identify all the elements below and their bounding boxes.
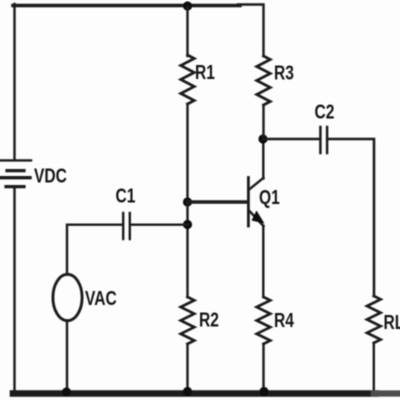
node VAC-ground junction xyxy=(62,387,71,396)
capacitor C2 xyxy=(315,101,335,153)
wire C2 to RL xyxy=(328,139,374,296)
resistor R2 xyxy=(181,297,219,344)
wire battery - to ground bus xyxy=(13,188,15,393)
node top junction xyxy=(183,1,192,10)
capacitor C1 xyxy=(116,185,136,239)
svg-text:C1: C1 xyxy=(116,185,136,207)
wire top supply rail xyxy=(13,4,240,8)
wire Q1 collector to collector node xyxy=(262,139,264,179)
source VAC xyxy=(53,274,117,320)
resistor R3 xyxy=(257,56,294,105)
wire Q1 emitter to R4 xyxy=(262,226,264,297)
node base junction xyxy=(183,197,192,206)
resistor RL xyxy=(367,296,400,343)
svg-text:VDC: VDC xyxy=(34,165,67,187)
wire top rail to R3 branch xyxy=(238,5,264,57)
wire left supply (top wire to battery +) xyxy=(13,4,15,160)
svg-text:VAC: VAC xyxy=(85,287,117,309)
wire R4 to ground bus xyxy=(262,344,264,393)
wire RL to ground bus xyxy=(373,343,375,393)
wire C1 to junction xyxy=(131,223,188,225)
node R4-ground junction xyxy=(259,387,268,396)
battery VDC xyxy=(0,160,67,187)
svg-text:Q1: Q1 xyxy=(259,186,280,208)
transistor Q1 xyxy=(248,178,279,227)
svg-text:R2: R2 xyxy=(199,309,219,331)
svg-text:RL: RL xyxy=(384,311,400,333)
node R2-ground junction xyxy=(183,387,192,396)
resistor R1 xyxy=(181,55,215,104)
svg-text:R4: R4 xyxy=(274,309,294,331)
node collector junction xyxy=(258,134,267,143)
wire base node down through C1 node to R2 xyxy=(186,202,188,297)
wire R1 to base node xyxy=(186,104,188,202)
wire VAC to ground bus xyxy=(66,321,68,394)
node C1 junction xyxy=(183,220,192,229)
wire top rail to R1 xyxy=(186,7,188,56)
ground bus xyxy=(13,390,376,397)
svg-text:R3: R3 xyxy=(274,62,294,84)
wire R2 to ground bus xyxy=(186,344,188,393)
resistor R4 xyxy=(257,297,294,344)
svg-text:C2: C2 xyxy=(315,101,335,123)
wire R3 to collector node xyxy=(262,105,264,139)
wire C1 to VAC xyxy=(67,225,122,275)
wire base node to Q1 base xyxy=(188,200,248,204)
svg-text:R1: R1 xyxy=(195,61,215,83)
wire collector node to C2 xyxy=(263,138,319,141)
